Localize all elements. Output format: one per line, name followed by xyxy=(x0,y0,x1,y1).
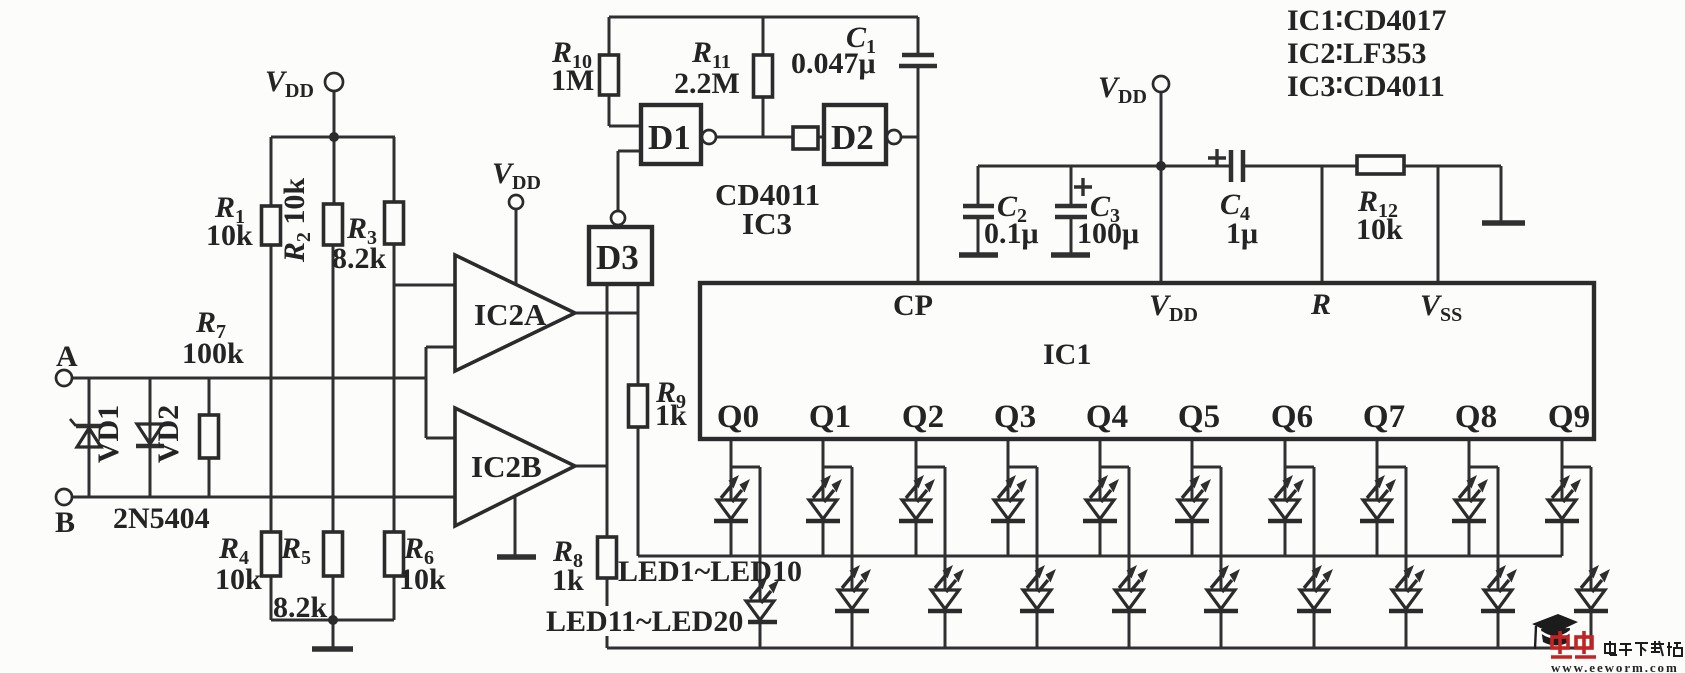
svg-text:100k: 100k xyxy=(182,337,244,370)
svg-text:8.2k: 8.2k xyxy=(332,242,387,275)
svg-text:1k: 1k xyxy=(552,564,584,597)
svg-text:IC2A: IC2A xyxy=(474,297,547,332)
svg-text:2.2M: 2.2M xyxy=(674,67,740,100)
svg-text:Q1: Q1 xyxy=(809,399,851,435)
svg-text:VDD: VDD xyxy=(492,157,541,194)
svg-text:IC2B: IC2B xyxy=(471,449,542,484)
svg-text:D1: D1 xyxy=(648,118,691,157)
svg-text:A: A xyxy=(56,340,78,373)
svg-text:100μ: 100μ xyxy=(1077,217,1139,250)
svg-text:IC1∶CD4017: IC1∶CD4017 xyxy=(1287,4,1446,37)
svg-text:Q6: Q6 xyxy=(1271,399,1313,435)
svg-text:LED1~LED10: LED1~LED10 xyxy=(618,555,802,588)
svg-text:0.1μ: 0.1μ xyxy=(984,217,1039,250)
svg-text:10k: 10k xyxy=(1356,213,1403,246)
svg-text:1M: 1M xyxy=(551,64,594,97)
svg-text:2N5404: 2N5404 xyxy=(113,502,210,535)
svg-text:Q9: Q9 xyxy=(1548,399,1590,435)
svg-text:VD1: VD1 xyxy=(92,405,125,463)
svg-text:IC3∶CD4011: IC3∶CD4011 xyxy=(1287,70,1445,103)
svg-text:10k: 10k xyxy=(215,563,262,596)
svg-text:1μ: 1μ xyxy=(1226,217,1258,250)
svg-text:Q2: Q2 xyxy=(902,399,944,435)
svg-text:D3: D3 xyxy=(596,238,639,277)
svg-text:B: B xyxy=(55,506,75,539)
svg-text:D2: D2 xyxy=(831,118,874,157)
svg-text:VDD: VDD xyxy=(1098,71,1147,108)
svg-text:R5: R5 xyxy=(280,532,311,569)
svg-text:8.2k: 8.2k xyxy=(273,591,328,624)
svg-text:0.047μ: 0.047μ xyxy=(791,47,876,80)
svg-text:LED11~LED20: LED11~LED20 xyxy=(546,605,743,638)
svg-text:Q5: Q5 xyxy=(1178,399,1220,435)
svg-text:10k: 10k xyxy=(206,219,253,252)
svg-text:R2 10k: R2 10k xyxy=(278,178,315,264)
svg-text:R: R xyxy=(1310,288,1331,321)
svg-text:www.eeworm.com: www.eeworm.com xyxy=(1551,660,1679,673)
svg-text:IC2∶LF353: IC2∶LF353 xyxy=(1287,37,1426,70)
svg-text:10k: 10k xyxy=(399,563,446,596)
svg-text:Q0: Q0 xyxy=(717,399,759,435)
svg-text:1k: 1k xyxy=(655,399,687,432)
svg-text:Q3: Q3 xyxy=(994,399,1036,435)
svg-text:IC3: IC3 xyxy=(742,206,792,241)
svg-text:Q8: Q8 xyxy=(1455,399,1497,435)
svg-text:VDD: VDD xyxy=(265,65,314,102)
svg-text:IC1: IC1 xyxy=(1043,338,1091,371)
svg-text:Q7: Q7 xyxy=(1363,399,1405,435)
svg-text:Q4: Q4 xyxy=(1086,399,1128,435)
svg-text:VD2: VD2 xyxy=(152,405,185,463)
svg-text:CP: CP xyxy=(893,289,933,322)
